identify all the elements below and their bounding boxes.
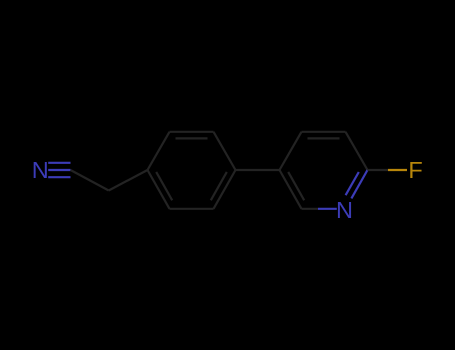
- pyridine C6-N1 bond gray half: [302, 208, 319, 210]
- C2-F bond gray half: [368, 169, 389, 171]
- wire bond CH2-ring: [109, 170, 148, 191]
- wire bond Cn-CH2: [71, 170, 109, 191]
- biaryl link bond: [236, 169, 280, 171]
- pyridine C6-N1 bond blue half: [318, 208, 337, 210]
- svg-text:N: N: [336, 197, 353, 223]
- pyridine inner double-bond lines: [308, 137, 340, 139]
- nitrile triple bond C#N: [48, 163, 70, 177]
- benzene ring: [148, 132, 236, 209]
- svg-text:F: F: [408, 157, 422, 183]
- svg-text:N: N: [32, 157, 49, 183]
- pyridine ring gray bonds: [280, 132, 368, 209]
- pyridine N1=C2 double bond: [346, 170, 368, 198]
- C2-F bond gold half: [388, 169, 407, 171]
- benzene inner double-bond lines: [176, 137, 208, 139]
